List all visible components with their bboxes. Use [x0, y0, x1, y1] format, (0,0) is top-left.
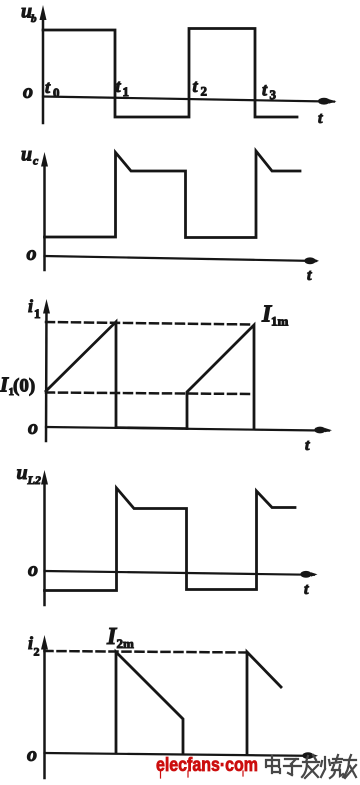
plot i_1 : waveform ramp 1 — [46, 322, 116, 428]
svg-text:t: t — [45, 77, 51, 97]
svg-text:t: t — [304, 581, 309, 598]
plot u_b : label u_b — [21, 1, 37, 26]
svg-text:L2: L2 — [27, 473, 41, 487]
plot i_2 : label I_2m — [106, 624, 134, 651]
svg-text:1: 1 — [123, 84, 130, 99]
plot i_2 : dashed level I_2m — [45, 651, 248, 653]
plot u_b : x-axis — [43, 97, 337, 105]
plot i_2 : label i_2 — [28, 633, 40, 659]
svg-text:2: 2 — [201, 84, 208, 99]
plot u_b : waveform square wave — [43, 29, 297, 118]
svg-text:t: t — [193, 76, 199, 96]
svg-text:0: 0 — [53, 85, 60, 100]
watermark chinese 友 — [343, 755, 356, 778]
plot i_1 : dashed level I_1(0) — [46, 393, 252, 395]
plot i_1 : label i_1 — [28, 296, 41, 321]
plot i_2 : x-axis — [45, 752, 319, 759]
plot u_c : x-axis — [45, 256, 320, 264]
plot i_2 : waveform pulse 1 — [116, 652, 183, 754]
svg-text:o: o — [27, 243, 37, 265]
plot u_L2 : y-axis — [41, 470, 48, 605]
watermark chinese 电 — [266, 756, 280, 773]
plot i_1 : waveform zero segment — [116, 428, 187, 429]
plot u_c : y-axis — [41, 152, 48, 270]
plot i_2 : waveform pulse 2 — [247, 652, 281, 754]
plot u_b : label t3 — [262, 80, 277, 103]
svg-text:3: 3 — [270, 87, 277, 102]
svg-text:i: i — [28, 633, 33, 653]
plot u_L2 : x-axis — [45, 571, 318, 578]
watermark red drips — [161, 771, 244, 778]
svg-text:o: o — [28, 417, 38, 439]
svg-text:t: t — [262, 80, 268, 100]
svg-text:(0): (0) — [13, 376, 35, 397]
svg-text:i: i — [28, 296, 33, 316]
watermark chinese 烧 — [321, 755, 343, 778]
plot u_c : waveform — [45, 151, 301, 238]
watermark chinese 发 — [302, 755, 319, 778]
svg-text:2: 2 — [34, 645, 40, 659]
watermark chinese 子 — [284, 759, 301, 775]
plot u_L2 : waveform — [45, 488, 296, 591]
plot i_1 : x-axis — [46, 427, 332, 434]
plot i_1 : label I_1(0) — [0, 373, 35, 399]
svg-text:t: t — [307, 267, 312, 284]
svg-text:2m: 2m — [117, 636, 135, 651]
plot u_L2 : label u_L2 — [17, 462, 41, 487]
svg-text:c: c — [33, 154, 39, 168]
svg-text:b: b — [31, 13, 37, 25]
plot u_c : label u_c — [21, 144, 39, 168]
plot u_b : label t0 — [45, 77, 60, 100]
svg-text:u: u — [17, 462, 28, 484]
plot i_1 : waveform ramp 2 — [187, 325, 254, 429]
svg-text:1m: 1m — [271, 314, 289, 329]
plot i_1 : dashed level I_1m — [46, 322, 252, 325]
svg-text:t: t — [305, 437, 310, 454]
svg-text:1: 1 — [34, 306, 41, 321]
svg-text:o: o — [23, 81, 33, 103]
plot u_b : label t1 — [116, 76, 130, 99]
svg-text:t: t — [318, 110, 323, 127]
svg-text:u: u — [21, 144, 32, 166]
svg-text:o: o — [27, 744, 37, 766]
plot i_1 : label I_1m — [261, 302, 289, 329]
plot i_1 : y-axis — [43, 299, 50, 441]
svg-text:o: o — [28, 559, 38, 581]
plot u_b : label t2 — [193, 76, 208, 99]
plot u_b : y-axis — [40, 5, 47, 123]
plot i_2 : y-axis — [41, 635, 48, 778]
